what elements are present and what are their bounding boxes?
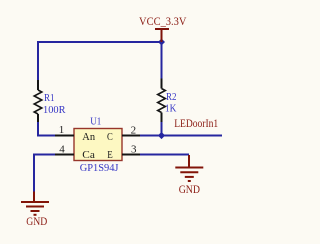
wire pin 3 to GND	[140, 154, 189, 156]
ground symbol left	[21, 192, 49, 215]
svg-text:4: 4	[59, 143, 65, 155]
svg-text:Ca: Ca	[82, 149, 95, 161]
pin 3 (E)	[122, 154, 140, 156]
svg-text:1: 1	[59, 124, 65, 136]
pin 1 (An)	[55, 135, 74, 137]
wire VCC junction down to R2	[161, 42, 163, 79]
power port VCC_3.3V	[155, 29, 169, 42]
svg-text:R1: R1	[44, 92, 55, 104]
svg-text:C: C	[107, 131, 113, 143]
svg-text:E: E	[107, 149, 113, 161]
svg-text:2: 2	[131, 124, 137, 136]
svg-text:GP1S94J: GP1S94J	[80, 162, 119, 174]
ground symbol right	[175, 155, 203, 181]
pin 2 (C)	[122, 135, 140, 137]
svg-text:U1: U1	[90, 116, 101, 127]
wire pin 4 to GND	[34, 155, 55, 193]
wire pin 2 net LEDoorIn1	[140, 135, 222, 137]
svg-text:An: An	[82, 131, 95, 143]
svg-text:1K: 1K	[165, 102, 177, 114]
wire top rail from R1 to VCC stem	[38, 41, 162, 43]
svg-text:100R: 100R	[43, 104, 66, 116]
svg-text:LEDoorIn1: LEDoorIn1	[174, 118, 218, 130]
svg-text:VCC_3.3V: VCC_3.3V	[139, 16, 187, 28]
junction at R2 / pin 2 node	[158, 132, 165, 139]
wire R2 bottom to junction	[161, 122, 163, 136]
wire left vertical down to R1	[37, 41, 39, 80]
svg-text:GND: GND	[26, 216, 47, 228]
junction at VCC node	[158, 39, 165, 46]
svg-text:GND: GND	[179, 184, 200, 196]
resistor R2	[158, 79, 166, 123]
resistor R1	[34, 80, 42, 122]
pin 4 (Ca)	[55, 154, 74, 156]
wire R1 bottom to pin 1	[38, 122, 55, 136]
op-to part U1 body	[74, 129, 122, 161]
svg-text:R2: R2	[166, 91, 177, 103]
svg-text:3: 3	[131, 144, 137, 156]
